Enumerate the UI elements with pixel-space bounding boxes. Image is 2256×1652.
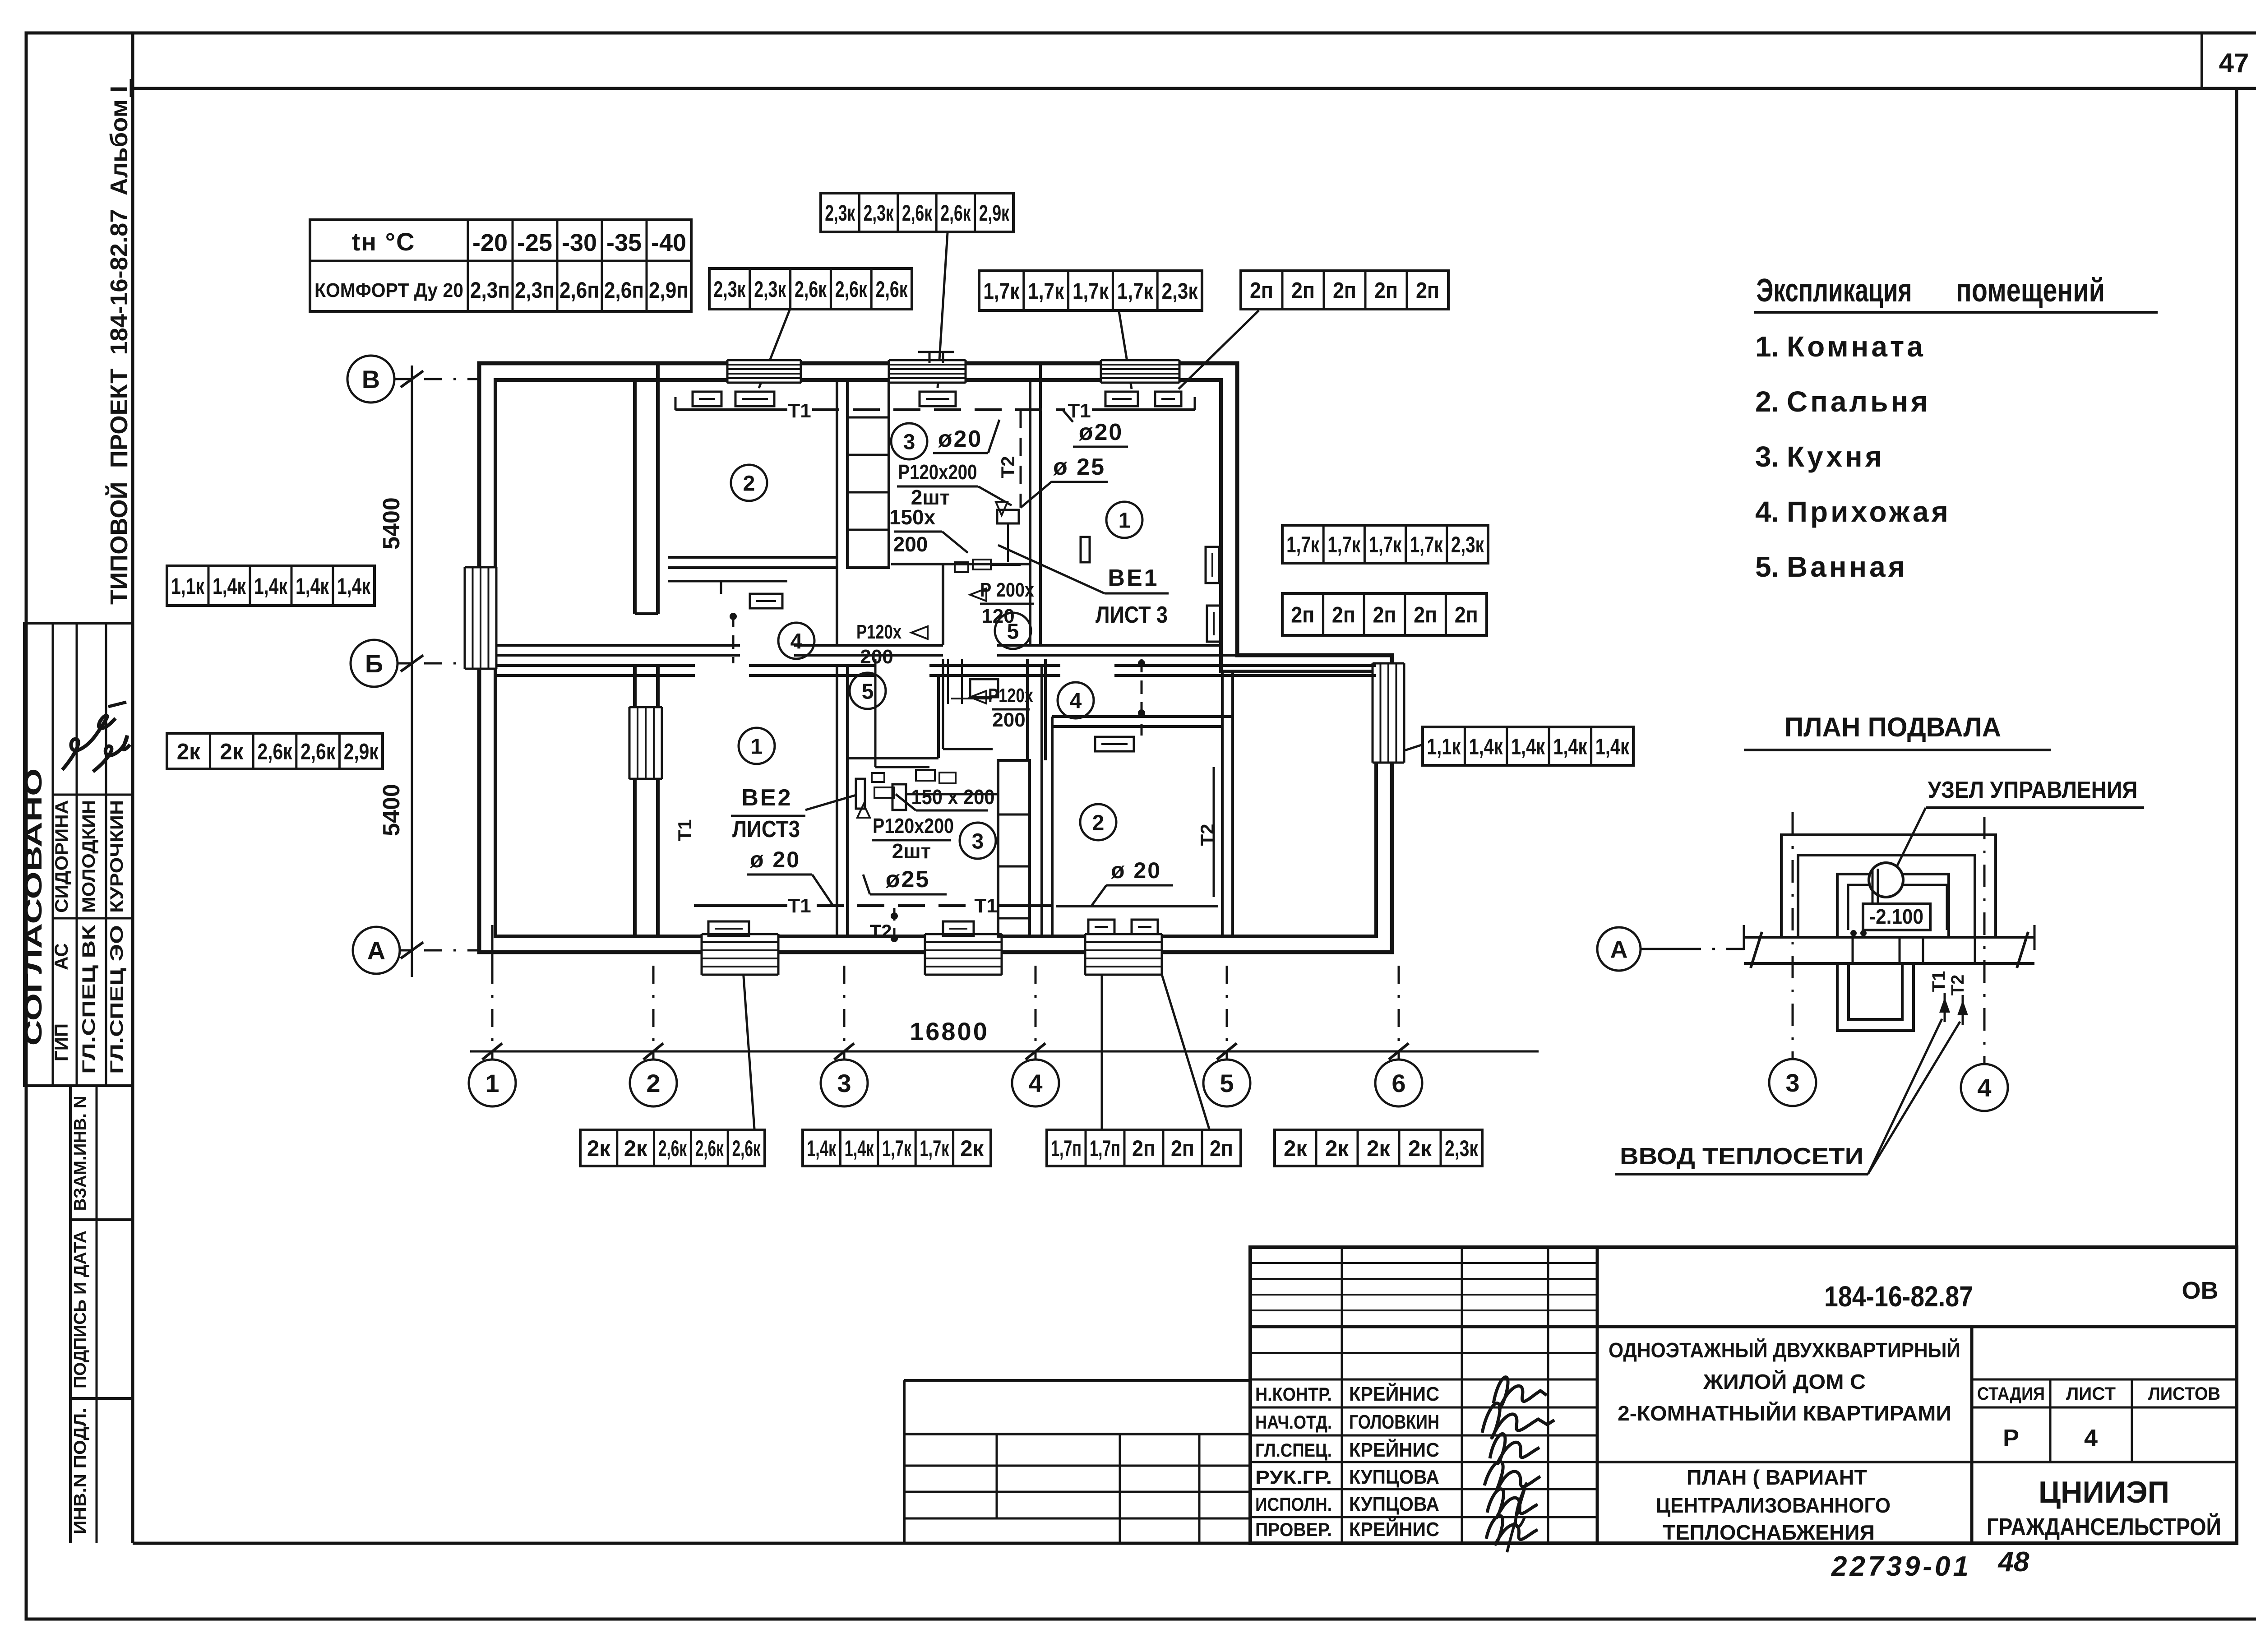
svg-text:5: 5 [1220,1069,1234,1097]
svg-text:2,6к: 2,6к [258,739,293,764]
svg-text:Т2: Т2 [997,456,1018,478]
svg-text:1,4к: 1,4к [807,1136,837,1161]
svg-text:ЛИСТ3: ЛИСТ3 [732,816,800,842]
svg-text:СОГЛАСОВАНО: СОГЛАСОВАНО [21,768,47,1046]
svg-text:-40: -40 [651,229,686,256]
svg-text:4: 4 [2084,1425,2098,1452]
svg-text:2,6п: 2,6п [559,278,599,303]
svg-text:2п: 2п [1132,1136,1156,1161]
svg-text:2п: 2п [1332,602,1355,628]
svg-text:5.: 5. [1755,551,1779,583]
svg-text:48: 48 [1997,1546,2029,1578]
svg-text:ВЗАМ.ИНВ. N: ВЗАМ.ИНВ. N [71,1096,90,1211]
svg-text:150х: 150х [889,505,936,529]
svg-text:5400: 5400 [379,497,405,550]
svg-text:1,7п: 1,7п [1090,1136,1120,1161]
svg-text:-20: -20 [472,229,508,256]
svg-text:2,3к: 2,3к [1162,278,1198,304]
svg-text:tн °C: tн °C [352,227,416,256]
svg-text:В: В [362,365,380,393]
svg-text:150 х 200: 150 х 200 [911,785,995,809]
svg-text:2,6к: 2,6к [658,1136,687,1161]
svg-text:2шт: 2шт [892,839,931,863]
svg-text:Т2: Т2 [869,921,892,942]
svg-text:ø20: ø20 [938,426,983,452]
svg-text:1,4к: 1,4к [337,574,371,599]
svg-text:4.: 4. [1755,495,1779,528]
svg-text:1,1к: 1,1к [1427,734,1461,759]
svg-text:ЛИСТ 3: ЛИСТ 3 [1096,602,1168,628]
svg-text:1.: 1. [1755,330,1779,363]
svg-text:2,6к: 2,6к [695,1136,724,1161]
svg-text:Р120х: Р120х [988,685,1033,707]
svg-text:ТЕПЛОСНАБЖЕНИЯ: ТЕПЛОСНАБЖЕНИЯ [1663,1521,1875,1544]
svg-text:-35: -35 [606,229,642,256]
svg-text:2п: 2п [1416,278,1439,303]
svg-text:2-КОМНАТНЫЙИ КВАРТИРАМИ: 2-КОМНАТНЫЙИ КВАРТИРАМИ [1618,1402,1951,1425]
svg-text:2,6к: 2,6к [835,277,868,302]
svg-text:1,4к: 1,4к [845,1136,874,1161]
svg-text:ПОДПИСЬ И ДАТА: ПОДПИСЬ И ДАТА [71,1231,90,1388]
svg-text:2п: 2п [1414,602,1437,628]
svg-text:1,7к: 1,7к [920,1136,949,1161]
svg-text:1: 1 [751,735,763,759]
svg-text:Т1: Т1 [1929,971,1949,992]
svg-text:РУК.ГР.: РУК.ГР. [1255,1467,1332,1488]
svg-text:Кухня: Кухня [1787,440,1885,473]
svg-text:4: 4 [791,629,803,653]
svg-text:ГЛ.СПЕЦ.: ГЛ.СПЕЦ. [1255,1439,1332,1461]
svg-text:5400: 5400 [379,784,405,836]
svg-text:ВВОД ТЕПЛОСЕТИ: ВВОД ТЕПЛОСЕТИ [1620,1143,1863,1170]
svg-text:Р120х200: Р120х200 [873,814,954,838]
svg-text:2,6п: 2,6п [604,278,644,303]
svg-text:2,9п: 2,9п [649,278,689,303]
svg-text:ЦЕНТРАЛИЗОВАННОГО: ЦЕНТРАЛИЗОВАННОГО [1656,1494,1891,1517]
svg-text:ВЕ1: ВЕ1 [1108,565,1159,591]
svg-text:120: 120 [981,605,1014,627]
svg-text:2,3к: 2,3к [825,200,855,226]
svg-text:СТАДИЯ: СТАДИЯ [1977,1384,2045,1404]
svg-text:ПЛАН ( ВАРИАНТ: ПЛАН ( ВАРИАНТ [1687,1466,1867,1489]
svg-text:ø25: ø25 [886,866,930,893]
svg-text:2п: 2п [1291,278,1315,303]
svg-text:ГРАЖДАНСЕЛЬСТРОЙ: ГРАЖДАНСЕЛЬСТРОЙ [1987,1513,2221,1541]
svg-text:АС: АС [51,943,72,970]
svg-text:Ванная: Ванная [1787,551,1908,583]
svg-text:1,4к: 1,4к [1595,734,1630,759]
svg-text:-25: -25 [517,229,552,256]
svg-text:2к: 2к [1367,1136,1391,1161]
svg-text:2п: 2п [1374,278,1398,303]
svg-text:2,6к: 2,6к [300,739,336,764]
svg-text:1,4к: 1,4к [1553,734,1587,759]
svg-text:Р 200х: Р 200х [980,579,1034,601]
svg-text:Р120х: Р120х [856,621,901,643]
svg-text:2,6к: 2,6к [732,1136,761,1161]
svg-text:Т2: Т2 [1948,975,1968,996]
svg-text:2.: 2. [1755,385,1779,418]
svg-text:ГЛ.СПЕЦ ВК: ГЛ.СПЕЦ ВК [79,925,99,1074]
svg-text:1,7к: 1,7к [1369,532,1402,557]
svg-text:1,7к: 1,7к [1073,278,1109,304]
svg-text:ИСПОЛН.: ИСПОЛН. [1255,1494,1332,1515]
svg-text:ø 25: ø 25 [1053,454,1105,480]
svg-text:ЖИЛОЙ ДОМ С: ЖИЛОЙ ДОМ С [1703,1370,1866,1393]
svg-text:2п: 2п [1291,602,1314,628]
svg-text:2п: 2п [1455,602,1478,628]
svg-text:2к: 2к [177,739,201,764]
svg-text:2к: 2к [1325,1136,1349,1161]
svg-text:КРЕЙНИС: КРЕЙНИС [1349,1518,1439,1541]
svg-text:А: А [1610,936,1628,963]
svg-text:3: 3 [1785,1069,1799,1097]
svg-text:3.: 3. [1755,440,1779,473]
svg-text:Р120х200: Р120х200 [898,460,977,484]
svg-text:1,4к: 1,4к [1511,734,1545,759]
svg-text:2п: 2п [1250,278,1273,303]
svg-text:2: 2 [646,1069,660,1097]
svg-text:47: 47 [2219,48,2249,78]
svg-text:Экспликация: Экспликация [1757,273,1912,309]
svg-text:200: 200 [992,709,1025,731]
svg-text:ОВ: ОВ [2182,1277,2219,1304]
svg-text:2к: 2к [220,739,244,764]
svg-text:1,4к: 1,4к [1469,734,1503,759]
svg-text:ВЕ2: ВЕ2 [741,785,792,811]
svg-text:Н.КОНТР.: Н.КОНТР. [1255,1384,1332,1405]
svg-text:2,6к: 2,6к [940,200,971,226]
svg-text:НАЧ.ОТД.: НАЧ.ОТД. [1255,1411,1332,1433]
svg-text:2,3к: 2,3к [1445,1136,1479,1161]
svg-text:2к: 2к [1408,1136,1432,1161]
svg-text:2,9к: 2,9к [979,200,1010,226]
svg-text:22739-01: 22739-01 [1831,1551,1971,1582]
svg-text:2п: 2п [1171,1136,1194,1161]
svg-text:1,7к: 1,7к [1117,278,1154,304]
svg-text:А: А [367,936,385,965]
svg-text:ГИП: ГИП [51,1023,72,1061]
svg-text:16800: 16800 [910,1017,989,1046]
svg-text:Т1: Т1 [974,895,997,917]
svg-text:2к: 2к [1284,1136,1308,1161]
svg-text:Р: Р [2003,1425,2019,1452]
svg-text:200: 200 [893,532,928,556]
svg-text:1,7к: 1,7к [983,278,1020,304]
svg-text:4: 4 [1977,1074,1991,1102]
svg-text:ЛИСТ: ЛИСТ [2066,1384,2116,1404]
svg-text:2,6к: 2,6к [876,277,908,302]
svg-text:1,7п: 1,7п [1051,1136,1082,1161]
svg-text:1,4к: 1,4к [213,574,246,599]
svg-text:Т1: Т1 [788,895,811,917]
svg-text:200: 200 [860,646,893,668]
svg-text:1,7к: 1,7к [1286,532,1320,557]
svg-text:1,4к: 1,4к [296,574,329,599]
svg-text:2,3к: 2,3к [754,277,786,302]
svg-text:1,7к: 1,7к [1327,532,1361,557]
svg-text:ПЛАН ПОДВАЛА: ПЛАН ПОДВАЛА [1784,712,2001,742]
svg-text:2п: 2п [1373,602,1396,628]
svg-text:2,3к: 2,3к [864,200,894,226]
svg-text:ТИПОВОЙ ПРОЕКТ 184-16-82.87: ТИПОВОЙ ПРОЕКТ 184-16-82.87 Альбом I [105,86,133,605]
svg-text:Прихожая: Прихожая [1787,495,1951,528]
svg-text:-30: -30 [562,229,597,256]
svg-text:2к: 2к [624,1136,648,1161]
svg-text:ø20: ø20 [1079,419,1123,445]
svg-text:1,7к: 1,7к [1028,278,1064,304]
svg-text:ПРОВЕР.: ПРОВЕР. [1255,1519,1332,1540]
svg-text:3: 3 [972,829,984,853]
svg-text:3: 3 [837,1069,851,1097]
svg-text:КУРОЧКИН: КУРОЧКИН [107,800,127,913]
svg-text:помещений: помещений [1956,273,2105,309]
svg-text:3: 3 [903,430,915,454]
svg-text:6: 6 [1392,1069,1405,1097]
svg-text:1: 1 [1119,509,1131,532]
svg-text:ИНВ.N ПОДЛ.: ИНВ.N ПОДЛ. [71,1408,90,1534]
svg-text:МОЛОДКИН: МОЛОДКИН [79,800,99,913]
svg-text:ОДНОЭТАЖНЫЙ ДВУХКВАРТИРНЫЙ: ОДНОЭТАЖНЫЙ ДВУХКВАРТИРНЫЙ [1609,1338,1960,1362]
svg-text:-2.100: -2.100 [1869,905,1923,928]
svg-text:2,3к: 2,3к [713,277,746,302]
svg-text:1,4к: 1,4к [254,574,288,599]
svg-text:Т1: Т1 [674,819,695,841]
svg-text:2,9к: 2,9к [344,739,379,764]
svg-text:184-16-82.87: 184-16-82.87 [1824,1280,1973,1313]
svg-text:1,1к: 1,1к [171,574,205,599]
svg-text:2: 2 [1092,811,1105,835]
svg-text:КРЕЙНИС: КРЕЙНИС [1349,1438,1439,1461]
svg-text:КУПЦОВА: КУПЦОВА [1349,1466,1439,1488]
svg-text:2к: 2к [960,1136,984,1161]
svg-text:2,6к: 2,6к [902,200,933,226]
svg-text:2п: 2п [1333,278,1356,303]
svg-text:КУПЦОВА: КУПЦОВА [1349,1493,1439,1515]
svg-text:2,3п: 2,3п [515,278,555,303]
svg-text:УЗЕЛ УПРАВЛЕНИЯ: УЗЕЛ УПРАВЛЕНИЯ [1928,777,2138,803]
svg-text:5: 5 [862,680,874,703]
svg-text:1,7к: 1,7к [1410,532,1443,557]
svg-text:1,7к: 1,7к [882,1136,912,1161]
svg-text:2,6к: 2,6к [795,277,827,302]
svg-text:ЛИСТОВ: ЛИСТОВ [2148,1384,2220,1404]
svg-text:ø 20: ø 20 [1111,858,1161,883]
svg-text:Спальня: Спальня [1787,385,1930,418]
svg-text:4: 4 [1070,689,1082,713]
svg-text:2: 2 [743,472,755,495]
svg-text:Комната: Комната [1787,330,1926,363]
svg-text:4: 4 [1028,1069,1042,1097]
svg-text:ГЛ.СПЕЦ ЭО: ГЛ.СПЕЦ ЭО [107,925,127,1074]
svg-text:Т1: Т1 [788,400,811,422]
svg-text:1: 1 [485,1069,499,1097]
svg-text:ø 20: ø 20 [750,847,800,872]
svg-text:ГОЛОВКИН: ГОЛОВКИН [1349,1411,1439,1433]
svg-text:Б: Б [365,649,383,678]
svg-text:2,3к: 2,3к [1451,532,1484,557]
svg-text:ЦНИИЭП: ЦНИИЭП [2039,1475,2169,1509]
svg-text:2п: 2п [1210,1136,1233,1161]
svg-text:КРЕЙНИС: КРЕЙНИС [1349,1382,1439,1405]
svg-text:2к: 2к [587,1136,611,1161]
svg-text:2,3п: 2,3п [470,278,510,303]
svg-text:СИДОРИНА: СИДОРИНА [52,800,72,913]
svg-text:КОМФОРТ Ду 20: КОМФОРТ Ду 20 [314,279,463,301]
